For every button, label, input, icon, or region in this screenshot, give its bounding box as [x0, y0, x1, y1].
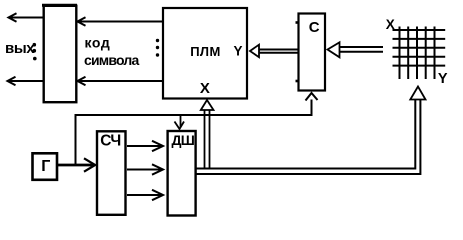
block: С (strobe/comparator): [299, 14, 326, 91]
wire: СЧ to ДШ arrow 1: [127, 141, 163, 151]
label: код символа: [84, 35, 139, 68]
svg-text:код: код: [85, 35, 111, 51]
svg-text:Y: Y: [234, 44, 243, 59]
block: ПЛМ: [163, 8, 247, 99]
wire: hollow branch from ДШ bus up to ПЛМ X: [205, 110, 210, 170]
wire: double-line bus С to ПЛМ Y with hollow arrow: [250, 45, 298, 58]
svg-text:вых: вых: [5, 40, 35, 57]
node: ellipsis between код символа and ПЛМ: [156, 39, 159, 57]
wire: ПЛМ to register, bottom: [78, 77, 163, 85]
wire: hollow arrowhead into ПЛМ bottom: [201, 100, 214, 110]
wire: Г to СЧ clock with big open arrow: [58, 158, 95, 171]
svg-text:Г: Г: [41, 158, 50, 175]
component: key matrix grid: [393, 27, 446, 80]
svg-text:С: С: [309, 19, 320, 36]
wire: СЧ to ДШ arrow 2: [127, 164, 163, 174]
block: Г (generator): [33, 153, 58, 180]
svg-text:СЧ: СЧ: [100, 133, 121, 150]
wire: hollow arrowhead into matrix bottom: [410, 87, 425, 100]
wire: output arrow bottom-left: [8, 77, 43, 85]
svg-text:Y: Y: [438, 71, 448, 87]
wire: ДШ output double bus to matrix (hollow): [196, 100, 420, 175]
svg-text:ПЛМ: ПЛМ: [190, 44, 221, 59]
svg-text:X: X: [200, 80, 210, 97]
svg-text:ДШ: ДШ: [172, 132, 195, 148]
svg-text:X: X: [386, 17, 395, 32]
wire: output arrow top-left: [9, 13, 43, 21]
label вых: with ellipsis dot: [5, 40, 37, 60]
block: output register (left tall box): [42, 5, 77, 102]
node: pin nub on С left edge bottom: [296, 80, 299, 83]
wire: СЧ to ДШ arrow 3: [127, 190, 163, 200]
block: ДШ (decoder): [168, 131, 196, 216]
wire: clock bus from Г line up and across to С: [76, 100, 312, 165]
wire: arrowhead up into С bottom: [306, 93, 318, 101]
wire: ПЛМ to register, top (код символа bus): [78, 17, 163, 25]
wire: drop from clock bus into ДШ with down arrow: [175, 116, 185, 129]
node: pin nub on С left edge top: [296, 21, 299, 24]
block: СЧ (counter): [97, 131, 126, 215]
wire: double-line bus matrix to С with hollow arrow: [328, 42, 384, 57]
svg-text:символа: символа: [84, 52, 139, 68]
